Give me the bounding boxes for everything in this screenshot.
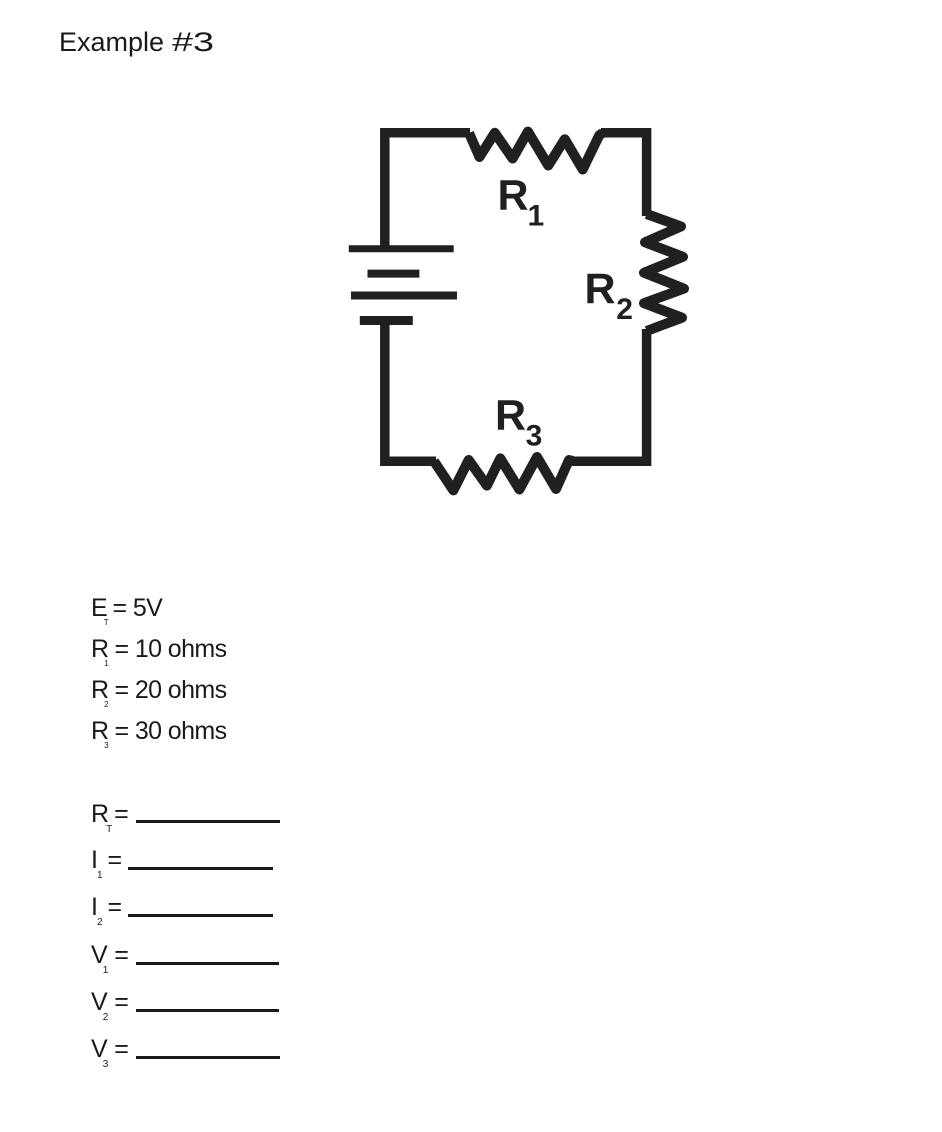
battery plate short	[368, 270, 420, 278]
svg-text:2: 2	[616, 293, 633, 326]
given values	[91, 596, 162, 621]
battery plate long top (positive)	[349, 245, 454, 252]
battery B1	[349, 249, 457, 321]
svg-text:R: R	[585, 265, 616, 313]
resistor R2	[644, 214, 684, 331]
svg-text:3: 3	[526, 420, 543, 453]
svg-text:1: 1	[528, 200, 545, 233]
battery plate short bottom (negative)	[360, 316, 413, 325]
svg-text:R: R	[495, 391, 526, 439]
battery plate long	[351, 292, 457, 300]
wire from R3 along bottom and up to battery negative terminal	[385, 319, 436, 461]
resistor R1	[469, 132, 603, 170]
resistor R3	[434, 457, 573, 490]
svg-text:R: R	[498, 171, 529, 219]
title	[59, 29, 202, 56]
wire from battery positive terminal up and along top to R1	[385, 133, 470, 249]
answer rows	[91, 802, 129, 827]
wire from R2 down right side and along bottom to R3	[571, 329, 647, 461]
wire from R1 right along top and down right side to R2	[601, 133, 647, 216]
